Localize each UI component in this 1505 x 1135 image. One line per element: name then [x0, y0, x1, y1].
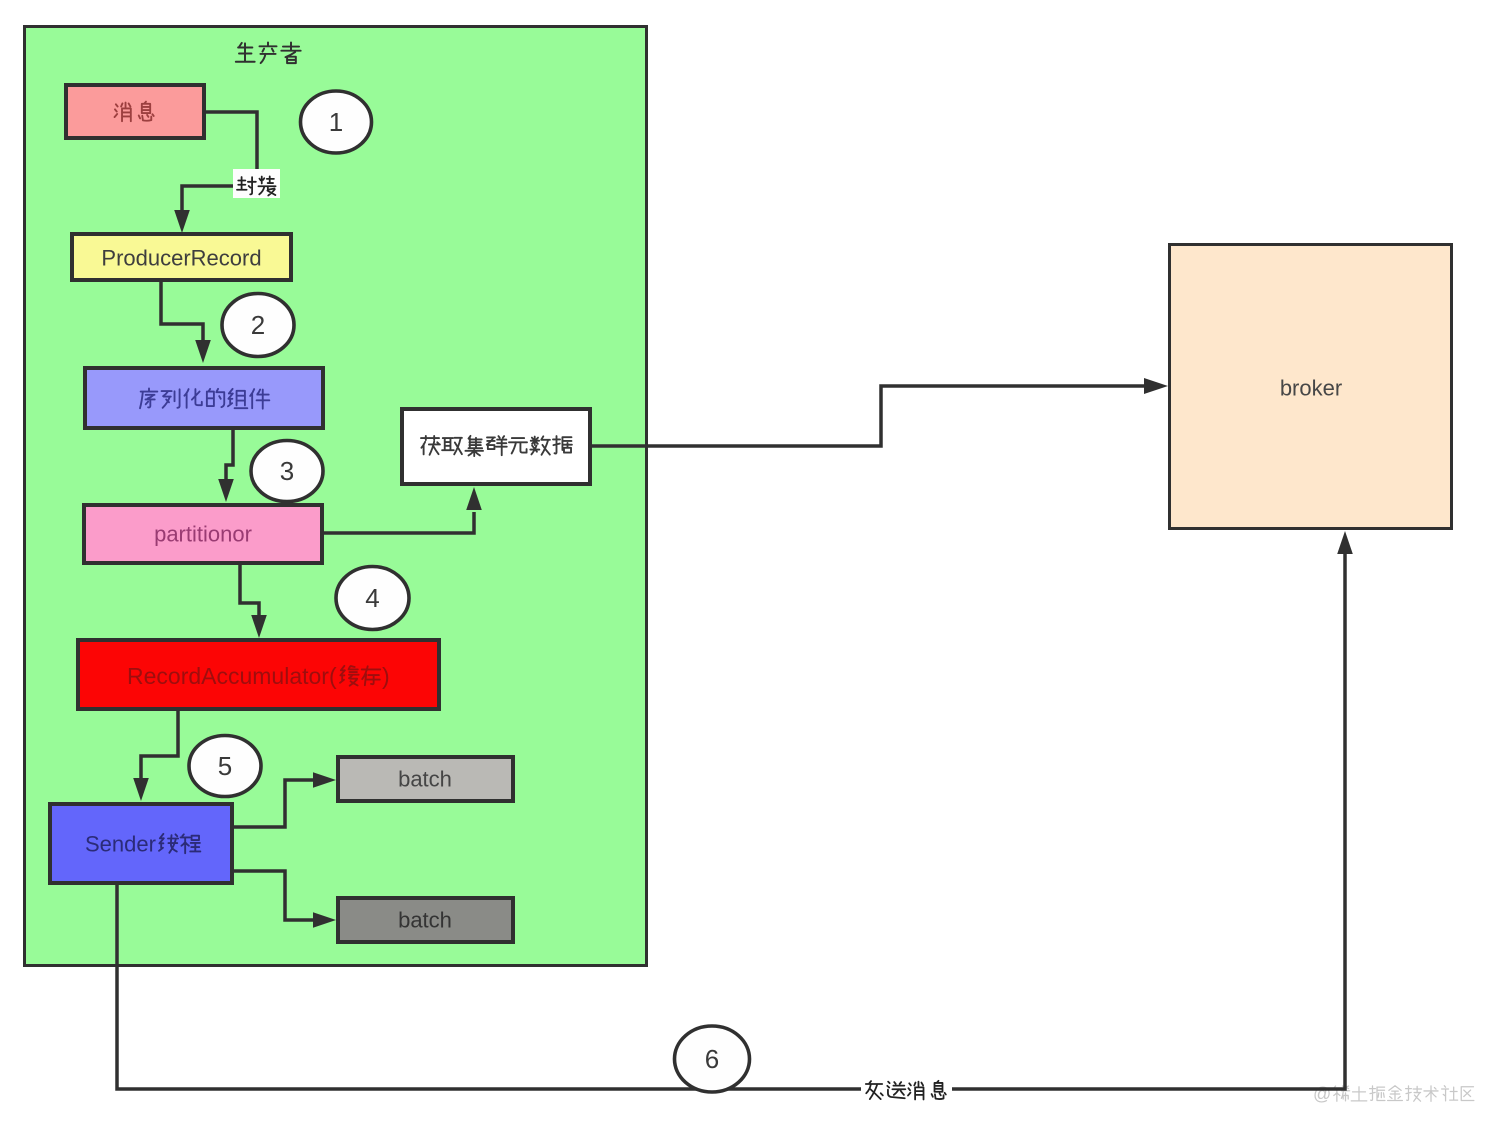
wire 消息 to ProducerRecord	[182, 112, 257, 211]
arrowhead into broker left	[1144, 378, 1168, 394]
svg-text:6: 6	[705, 1044, 719, 1074]
svg-text:1: 1	[329, 107, 343, 137]
box batch 1	[338, 757, 513, 801]
arrowhead into 获取集群元数据	[466, 487, 482, 510]
wire RecordAccumulator to Sender线程	[141, 711, 178, 779]
circle 4	[336, 567, 409, 630]
svg-text:4: 4	[365, 583, 379, 613]
arrowhead into partitionor	[218, 479, 234, 502]
wire ProducerRecord to 序列化的组件	[161, 282, 203, 341]
circle 3	[251, 441, 323, 502]
svg-text:): )	[382, 663, 390, 689]
circle 6	[675, 1026, 750, 1092]
svg-text:2: 2	[251, 310, 265, 340]
svg-text:5: 5	[218, 751, 232, 781]
box broker	[1170, 245, 1452, 529]
wire Sender线程 to batch 2	[234, 871, 313, 920]
svg-text:ProducerRecord: ProducerRecord	[101, 246, 261, 271]
wire 获取集群元数据 to broker	[592, 386, 1146, 446]
box ProducerRecord	[72, 234, 291, 280]
label 发送消息	[866, 1081, 946, 1100]
label 封装 background	[233, 169, 280, 198]
svg-text:RecordAccumulator(: RecordAccumulator(	[127, 663, 337, 689]
circle 5	[189, 736, 261, 797]
arrowhead into RecordAccumulator	[251, 615, 267, 638]
svg-text:partitionor: partitionor	[154, 522, 252, 547]
title 生产者	[236, 42, 301, 63]
label 封装	[237, 176, 276, 195]
box Sender线程	[50, 804, 232, 883]
label 发送消息 background	[861, 1077, 952, 1105]
arrowhead into batch 1	[313, 772, 336, 788]
arrowhead into batch 2	[313, 912, 336, 928]
wire Sender线程 to broker (发送消息)	[117, 553, 1345, 1089]
producer container (green)	[25, 27, 647, 966]
box partitionor	[84, 505, 322, 563]
wire partitionor to RecordAccumulator	[240, 565, 259, 616]
svg-text:Sender: Sender	[85, 832, 156, 857]
wire partitionor to 获取集群元数据	[324, 512, 474, 533]
arrowhead into broker bottom	[1337, 531, 1353, 554]
label 获取集群元数据	[421, 436, 572, 456]
svg-text:batch: batch	[398, 908, 452, 933]
circle 1	[301, 91, 372, 153]
arrowhead into Sender线程	[133, 778, 149, 801]
box batch 2	[338, 898, 513, 942]
svg-text:batch: batch	[398, 767, 452, 792]
label 消息	[115, 102, 154, 122]
arrowhead into ProducerRecord	[174, 210, 190, 233]
svg-text:broker: broker	[1280, 376, 1342, 401]
arrowhead into 序列化的组件	[195, 340, 211, 363]
label 序列化的组件	[140, 388, 269, 408]
wire Sender线程 to batch 1	[234, 780, 313, 827]
box 序列化的组件	[85, 368, 323, 428]
svg-text:3: 3	[280, 456, 294, 486]
box 消息	[66, 85, 204, 138]
wire 序列化的组件 to partitionor	[226, 430, 233, 480]
box RecordAccumulator	[78, 640, 439, 709]
svg-text:@: @	[1313, 1084, 1331, 1104]
box 获取集群元数据	[402, 409, 590, 484]
circle 2	[222, 294, 294, 357]
